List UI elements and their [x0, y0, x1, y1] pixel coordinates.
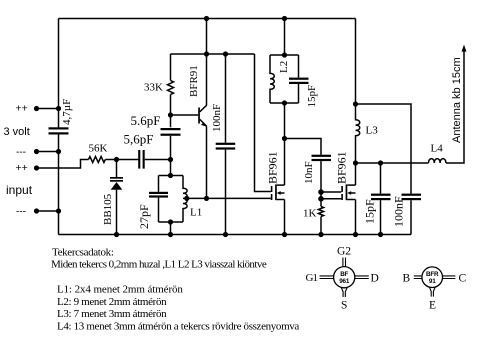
diode BB105 varicap — [116, 160, 118, 178]
pinout BF961 circle — [334, 267, 355, 288]
svg-text:1K: 1K — [303, 208, 317, 220]
wire gate2 second — [321, 191, 341, 193]
wire bypass route — [356, 104, 412, 194]
svg-text:L4: 13 menet 3mm átmérön a tek: L4: 13 menet 3mm átmérön a tekercs rövid… — [57, 321, 299, 333]
svg-text:Antenna kb 15cm: Antenna kb 15cm — [451, 57, 463, 143]
node base bias — [168, 112, 173, 117]
wire drain1 up — [284, 103, 286, 185]
wire 15pF output top — [380, 163, 382, 194]
wire 100nF bottom to ground — [225, 150, 227, 235]
svg-text:G1: G1 — [306, 272, 319, 284]
wire second rail — [171, 53, 255, 55]
wire base node down to cap — [170, 115, 172, 127]
node L1 tap — [184, 196, 189, 201]
node drain1 coupling junction — [282, 136, 287, 141]
node junction plus rail — [56, 106, 61, 111]
wire tank L1 left branch lower — [158, 198, 160, 222]
wire 33K bottom to base node — [170, 95, 172, 116]
svg-text:G2: G2 — [337, 246, 351, 258]
wire tank L2 right branch upper — [298, 55, 300, 78]
wire 1K bottom — [320, 217, 322, 235]
svg-text:L2: 9 menet 2mm átmérön: L2: 9 menet 2mm átmérön — [57, 296, 167, 308]
node junction input minus rail — [56, 208, 61, 213]
node 15pF ground — [378, 232, 383, 237]
pinout BFR91 lead B — [414, 276, 422, 279]
capacitor C 5,6pF series plates — [138, 150, 145, 169]
svg-text:L2: L2 — [278, 61, 290, 73]
node input minus — [34, 208, 39, 213]
svg-text:L4: L4 — [431, 143, 444, 155]
wire input plus to resistor — [37, 160, 89, 169]
node tank ground — [168, 232, 173, 237]
node battery plus — [34, 106, 39, 111]
capacitor C 5.6pF feedback plates — [161, 128, 181, 136]
node rail1 L2 junction — [282, 16, 287, 21]
svg-text:5.6pF: 5.6pF — [131, 113, 161, 128]
transistor Q1 BFR91 — [198, 105, 207, 127]
svg-text:B: B — [403, 273, 411, 285]
node gate2 second — [318, 189, 324, 195]
svg-text:4,7µF: 4,7µF — [61, 99, 73, 125]
pinout BFR91 lead C — [442, 276, 455, 279]
wire tank L1 left branch upper — [158, 176, 160, 193]
wire tank L1 bottom to ground — [170, 222, 172, 235]
wire rail1 to rail2 — [206, 19, 208, 55]
svg-text:BF: BF — [340, 271, 348, 278]
node tank top feed — [168, 157, 173, 162]
node tank L2 top — [282, 52, 287, 57]
wire tank L2 bottom bar — [270, 102, 299, 104]
resistor 56K zigzag — [89, 157, 106, 163]
pinout BF961 lead G2 — [343, 258, 346, 268]
node 1K ground — [318, 232, 323, 237]
node battery minus — [34, 149, 39, 154]
svg-text:961: 961 — [339, 278, 350, 285]
svg-text:3 volt: 3 volt — [4, 126, 30, 138]
capacitor C 10nF plates — [312, 155, 332, 161]
pinout BFR91 circle — [422, 267, 443, 288]
wire series cap to tank node — [145, 159, 171, 161]
node varicap bottom — [114, 232, 119, 237]
wire 100nF output bottom — [410, 200, 412, 234]
wire gate1 second — [321, 198, 341, 200]
wire 33K top — [170, 54, 172, 81]
svg-text:BB105: BB105 — [102, 193, 114, 225]
wire ground rail — [59, 234, 412, 236]
capacitor C 4,7uF plates — [49, 127, 69, 134]
node junction minus rail — [56, 149, 61, 154]
transistor U2 BF961 — [341, 184, 355, 200]
wire tank L2 right branch lower — [298, 84, 300, 103]
svg-text:33K: 33K — [144, 82, 163, 94]
node rail2 collector junction — [204, 51, 209, 56]
resistor 33K zigzag — [168, 81, 174, 95]
wire feedback cap to tank node — [170, 136, 172, 160]
svg-text:15pF: 15pF — [363, 199, 377, 224]
capacitor C 100nF first plates — [216, 143, 236, 150]
svg-text:---: --- — [16, 207, 26, 218]
svg-text:10nF: 10nF — [303, 161, 315, 184]
node 15pF output top — [378, 160, 383, 165]
transistor U1 BF961 — [271, 184, 285, 200]
wire drain2 up — [355, 163, 357, 185]
node L3 top — [353, 101, 358, 106]
antenna arrow — [462, 45, 467, 52]
svg-text:5,6pF: 5,6pF — [124, 132, 154, 147]
capacitor C 15pF output plates — [371, 194, 391, 201]
svg-text:Tekercsadatok:: Tekercsadatok: — [52, 247, 114, 259]
wire rail1 right corner down — [355, 19, 357, 105]
svg-text:E: E — [429, 300, 436, 312]
svg-text:BF961: BF961 — [335, 151, 349, 184]
svg-text:56K: 56K — [89, 143, 108, 155]
capacitor C 15pF tank plates — [289, 78, 309, 84]
svg-text:C: C — [459, 273, 467, 285]
wire tank node down — [170, 160, 172, 176]
wire 15pF output bottom — [380, 200, 382, 234]
node varicap top — [114, 157, 119, 162]
pinout BFR91 lead E — [429, 287, 435, 296]
wire tank L2 top bar — [270, 54, 299, 56]
capacitor C 100nF output plates — [402, 194, 422, 201]
wire L4 to antenna — [446, 48, 464, 163]
wire 56K to varicap node — [105, 159, 139, 161]
svg-text:Miden tekercs 0,2mm huzal ,L1: Miden tekercs 0,2mm huzal ,L1 L2 L3 vias… — [51, 259, 267, 271]
svg-text:L1: 2x4 menet 2mm átmérön: L1: 2x4 menet 2mm átmérön — [57, 284, 183, 296]
svg-text:D: D — [371, 273, 379, 285]
svg-text:L3: L3 — [366, 125, 379, 137]
svg-text:BFR: BFR — [426, 271, 439, 278]
wire source2 down — [355, 200, 357, 235]
svg-text:100nF: 100nF — [211, 104, 223, 132]
svg-text:BF961: BF961 — [266, 151, 280, 184]
svg-text:100nF: 100nF — [392, 196, 406, 227]
pinout BF961 lead G1 — [320, 276, 334, 279]
node rail1 collector junction — [204, 16, 209, 21]
wire left supply vertical upper — [58, 19, 60, 129]
node emitter tap junction — [204, 196, 209, 201]
node tank L1 top — [168, 173, 173, 178]
wire L1 tap to gate1 — [187, 197, 271, 199]
wire left supply vertical lower — [58, 135, 60, 235]
svg-text:++: ++ — [16, 162, 28, 174]
pinout BF961 lead S — [341, 288, 347, 297]
wire tank L1 top bar — [159, 175, 184, 177]
wire 100nF top — [225, 54, 227, 143]
node 100nF ground — [223, 232, 228, 237]
inductor L4 coil — [429, 159, 446, 163]
node tank L1 bottom — [168, 219, 173, 224]
wire coupling junction to 10nF — [285, 139, 322, 155]
wire battery minus — [37, 151, 59, 153]
wire gate2 route — [255, 54, 271, 192]
wire battery plus — [37, 108, 59, 110]
svg-text:L1: L1 — [190, 207, 202, 219]
node tank L2 bottom — [282, 100, 287, 105]
node source2 ground — [353, 232, 358, 237]
svg-text:L3: 7 menet 3mm átmérön: L3: 7 menet 3mm átmérön — [57, 308, 167, 320]
node gate1 second — [318, 196, 324, 202]
wire collector — [206, 54, 208, 105]
svg-text:91: 91 — [429, 278, 436, 285]
inductor L1 coil — [183, 176, 187, 223]
node output drain — [353, 160, 358, 165]
svg-text:15pF: 15pF — [306, 85, 318, 108]
wire input minus — [37, 210, 59, 212]
wire emitter down — [206, 126, 208, 198]
svg-text:++: ++ — [16, 103, 28, 115]
svg-text:27pF: 27pF — [137, 204, 151, 229]
wire base node to transistor — [171, 114, 199, 116]
node input plus — [34, 165, 39, 170]
wire source1 down — [284, 200, 286, 235]
svg-text:input: input — [6, 183, 33, 197]
resistor 1K zigzag — [318, 207, 323, 217]
pinout BF961 lead D — [355, 276, 369, 279]
wire output node to L4 — [356, 162, 429, 164]
wire tank L1 bottom bar — [159, 221, 184, 223]
svg-text:---: --- — [16, 147, 26, 158]
inductor L2 coil — [270, 55, 274, 103]
svg-text:BFR91: BFR91 — [188, 65, 200, 97]
capacitor C 27pF plates — [149, 192, 168, 198]
node rail2 100nF junction — [223, 51, 228, 56]
wire rail1 to tank L2 — [284, 19, 286, 56]
inductor L3 coil — [356, 104, 360, 163]
node source1 ground — [282, 232, 287, 237]
wire 10nF to gate nodes — [320, 161, 322, 206]
svg-text:S: S — [341, 300, 347, 312]
wire top supply rail — [59, 18, 356, 20]
